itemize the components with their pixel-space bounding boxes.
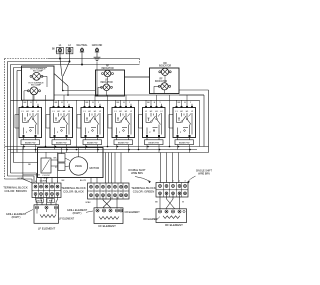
cabinet dashed boundary line <box>48 59 140 65</box>
svg-text:BK: BK <box>86 102 89 104</box>
wires from bus down to TB1 <box>41 153 58 184</box>
svg-text:BL/YR: BL/YR <box>80 180 87 182</box>
svg-text:RR ELEMENT: RR ELEMENT <box>143 218 159 221</box>
wire L1 drop <box>59 54 61 59</box>
annotation GRILL ELEMENT RIGHT left <box>6 210 33 220</box>
svg-text:BK: BK <box>24 102 27 104</box>
svg-text:H1: H1 <box>155 111 158 113</box>
node NEUTRAL supply terminal <box>76 44 88 54</box>
lamp B2 LF INDICATOR with label <box>98 77 113 96</box>
terminal block TB3 outline <box>156 181 188 197</box>
svg-text:Y: Y <box>67 102 69 104</box>
wires TB1 to element E1 <box>36 195 58 204</box>
ground symbol <box>94 54 101 95</box>
svg-text:R: R <box>56 51 58 53</box>
svg-text:CR ELEMENT: CR ELEMENT <box>125 211 141 214</box>
infinite switch S4 (CF) box <box>108 102 135 138</box>
wire L2 drop <box>69 54 71 62</box>
svg-text:L2: L2 <box>68 111 71 113</box>
annotation RR ELEMENT <box>143 217 160 221</box>
terminal block TB2 text COLOR BLACK <box>61 186 86 194</box>
relay small rect 1 <box>54 154 65 163</box>
svg-text:H2: H2 <box>119 111 122 113</box>
wires from S6 to bus <box>177 95 193 153</box>
wire TB2 feeds from control box <box>91 153 121 184</box>
svg-text:BK/BR P/W: BK/BR P/W <box>56 143 66 145</box>
svg-text:L2: L2 <box>37 111 40 113</box>
node GROUND supply terminal <box>92 44 103 54</box>
svg-text:GRILL ELEMENT: GRILL ELEMENT <box>6 212 27 216</box>
svg-text:GY/BK: GY/BK <box>17 178 24 180</box>
indicator lamp box A outline <box>22 66 55 100</box>
wire horizontal into TB1 zone <box>23 174 40 176</box>
wires from S4 to bus <box>116 95 132 153</box>
relay small rect 2 <box>55 163 65 171</box>
svg-text:BK/BR P/W: BK/BR P/W <box>118 143 128 145</box>
svg-text:BK: BK <box>28 164 31 166</box>
wire grill jumper from left nest to E1 <box>23 147 32 184</box>
svg-text:5: 5 <box>115 191 116 193</box>
svg-text:BK/BR P/W: BK/BR P/W <box>149 143 159 145</box>
wire horizontal bus y100 <box>11 99 200 101</box>
svg-text:INDICATOR: INDICATOR <box>155 80 168 83</box>
svg-text:L2: L2 <box>191 111 194 113</box>
svg-text:COLOR: BLACK: COLOR: BLACK <box>63 189 84 193</box>
svg-text:Y: Y <box>159 102 161 104</box>
svg-text:4: 4 <box>185 181 186 183</box>
svg-text:W/BK: W/BK <box>85 202 91 204</box>
svg-text:3: 3 <box>103 191 104 193</box>
svg-text:L1: L1 <box>83 111 86 113</box>
wire horizontal bus y95 <box>54 94 204 96</box>
svg-text:P: P <box>88 132 90 134</box>
infinite switch S5 (RR) box <box>139 102 166 138</box>
motor M1 circle <box>69 157 87 175</box>
svg-text:COLOR: BROWN: COLOR: BROWN <box>4 189 26 193</box>
wires inside control box <box>46 148 79 167</box>
label plate under switch S3 <box>83 140 102 145</box>
wires from lamp box C to right edge <box>179 90 209 153</box>
bus wire nest line 5 <box>17 71 22 153</box>
bus wire nest line 1 <box>5 59 49 180</box>
svg-text:H2: H2 <box>88 111 91 113</box>
svg-text:L2: L2 <box>99 111 102 113</box>
svg-text:4: 4 <box>179 181 180 183</box>
svg-text:CF ELEMENT: CF ELEMENT <box>98 224 116 228</box>
svg-text:R: R <box>30 102 32 104</box>
svg-text:R: R <box>154 102 156 104</box>
svg-text:6: 6 <box>121 191 122 193</box>
annotation GRILL ELEMENT RIGHT middle <box>67 208 93 215</box>
control assembly outer box <box>38 148 104 178</box>
svg-text:1: 1 <box>91 191 92 193</box>
svg-text:BK: BK <box>147 102 150 104</box>
svg-text:H1: H1 <box>63 111 66 113</box>
svg-text:BK/BR P/W: BK/BR P/W <box>25 143 35 145</box>
indicator lamp box B outline <box>96 70 125 96</box>
svg-text:3: 3 <box>41 181 42 183</box>
svg-text:IND LAMP: IND LAMP <box>31 84 42 87</box>
annotation SINGLE SHIFT WIRE BRN right <box>188 169 213 183</box>
label plate under switch S2 <box>52 140 71 145</box>
wire right edge loop bottom <box>204 146 209 148</box>
wires TB3 to element E3 with crossover <box>155 195 184 209</box>
wire diagonal from lamp box A <box>54 74 68 96</box>
infinite switch S3 (GRILL) box <box>77 102 104 138</box>
svg-text:R: R <box>55 167 57 169</box>
svg-text:BK/W: BK/W <box>37 201 42 203</box>
wire lower bus line 3 <box>11 152 209 154</box>
svg-text:R: R <box>123 102 125 104</box>
wires from S3 to bus <box>85 95 101 153</box>
svg-text:(RIGHT): (RIGHT) <box>12 217 21 219</box>
node L2 supply terminal <box>66 44 73 54</box>
svg-text:1: 1 <box>52 181 53 183</box>
svg-text:LF ELEMENT: LF ELEMENT <box>59 217 75 220</box>
svg-text:GROUND: GROUND <box>92 44 103 47</box>
wire group center-down to TB2 <box>106 153 112 184</box>
element E1 box (LF + grill) <box>34 205 59 224</box>
wire horizontal bus y91 <box>63 90 96 92</box>
node L1 supply terminal <box>57 44 64 54</box>
svg-text:L1: L1 <box>175 111 178 113</box>
wire lower bus line 2 <box>8 149 198 151</box>
svg-text:H1: H1 <box>186 111 189 113</box>
svg-text:BK: BK <box>52 49 56 51</box>
svg-text:ASM: ASM <box>44 176 49 179</box>
wire lower bus line 1 <box>5 146 205 148</box>
svg-text:L1: L1 <box>21 111 24 113</box>
wire NEUTRAL drop <box>81 54 83 65</box>
svg-text:L1: L1 <box>52 111 55 113</box>
lamp C1 RR INDICATOR with label <box>159 63 172 75</box>
svg-text:INDICATOR: INDICATOR <box>101 67 114 70</box>
svg-text:P: P <box>57 132 59 134</box>
svg-text:NEUTRAL: NEUTRAL <box>76 44 88 47</box>
svg-text:L1: L1 <box>145 111 148 113</box>
svg-text:BK: BK <box>62 180 65 182</box>
wire from lamp box B to box C <box>125 76 150 78</box>
svg-text:4: 4 <box>35 181 36 183</box>
svg-text:Y: Y <box>98 102 100 104</box>
terminal block TB2 outline <box>88 183 130 199</box>
svg-text:INDICATOR: INDICATOR <box>159 64 172 67</box>
bus junction dots <box>23 146 25 148</box>
clock timer square <box>41 158 51 179</box>
wire code labels under control box <box>40 180 87 183</box>
svg-text:GRILL ELEMENT: GRILL ELEMENT <box>67 208 88 212</box>
svg-text:2: 2 <box>97 191 98 193</box>
svg-text:BK: BK <box>54 158 57 160</box>
lamp A1 HOT SURFACE IND with label <box>30 67 46 80</box>
svg-text:BK: BK <box>55 102 58 104</box>
infinite switch S2 (LR) box <box>46 102 73 138</box>
svg-text:BK/BR P/W: BK/BR P/W <box>179 143 189 145</box>
svg-text:H2: H2 <box>26 111 29 113</box>
svg-text:H1: H1 <box>125 111 128 113</box>
svg-text:1500U: 1500U <box>75 165 83 168</box>
svg-text:H2: H2 <box>150 111 153 113</box>
wire Y-junction to main vertical <box>60 59 70 91</box>
indicator lamp box C outline <box>150 68 180 94</box>
svg-text:L2: L2 <box>130 111 133 113</box>
svg-text:Y: Y <box>190 102 192 104</box>
bus wire nest line 4 <box>14 68 48 163</box>
gutter vertical wires between switches <box>46 95 200 150</box>
svg-text:BK/BR P/W: BK/BR P/W <box>87 143 97 145</box>
svg-text:R: R <box>61 102 63 104</box>
bus wire nest line 2 <box>8 62 70 177</box>
label plate under switch S1 <box>21 140 40 145</box>
lamp A2 HOT SURFACE IND with label <box>24 76 47 106</box>
svg-text:R: R <box>92 102 94 104</box>
svg-text:H1: H1 <box>32 111 35 113</box>
svg-text:H2: H2 <box>57 111 60 113</box>
svg-text:H1: H1 <box>94 111 97 113</box>
svg-text:1: 1 <box>57 181 58 183</box>
svg-text:WIRE BRN: WIRE BRN <box>131 172 143 175</box>
svg-text:P: P <box>149 132 151 134</box>
svg-text:Y: Y <box>36 102 38 104</box>
lamp B1 RF INDICATOR with label <box>101 66 114 77</box>
svg-text:BK: BK <box>178 102 181 104</box>
element E3 box (RF + RR) <box>156 209 187 223</box>
terminal block TB3 text COLOR GREEN <box>131 186 156 194</box>
label plate under switch S6 <box>175 140 194 145</box>
wires from S2 to bus <box>54 95 70 153</box>
svg-text:W: W <box>182 202 184 204</box>
left bus lower turn wires <box>5 163 38 184</box>
wire group right-down to TB3 <box>161 153 179 183</box>
terminal block TB1 outline <box>32 181 61 197</box>
svg-text:IND LAMP: IND LAMP <box>33 70 44 73</box>
svg-text:WIRE BRN: WIRE BRN <box>198 172 210 175</box>
svg-text:BK: BK <box>155 202 158 204</box>
svg-text:4: 4 <box>109 191 110 193</box>
wires from S5 to bus <box>146 95 162 153</box>
svg-text:R/W: R/W <box>49 201 53 203</box>
svg-text:L1: L1 <box>59 44 62 47</box>
svg-text:3: 3 <box>173 181 174 183</box>
lamp C2 RF INDICATOR with label <box>154 75 171 93</box>
svg-text:BK: BK <box>117 102 120 104</box>
svg-text:Y: Y <box>129 102 131 104</box>
junction dots on bus <box>59 58 61 60</box>
svg-text:LF ELEMENT: LF ELEMENT <box>38 226 56 230</box>
svg-text:COLOR: GREEN: COLOR: GREEN <box>133 189 155 193</box>
svg-text:H2: H2 <box>180 111 183 113</box>
svg-text:RF ELEMENT: RF ELEMENT <box>165 223 183 227</box>
annotation CR ELEMENT <box>122 211 141 214</box>
wires from S1 to bus <box>23 95 39 153</box>
wires TB2 to element E2 with crossover <box>85 197 117 208</box>
svg-text:P: P <box>26 132 28 134</box>
svg-text:R: R <box>184 102 186 104</box>
svg-text:P: P <box>119 132 121 134</box>
label plate under switch S5 <box>145 140 164 145</box>
infinite switch S1 (LF) box <box>15 102 42 138</box>
element E2 box (CF + grill) <box>94 208 123 224</box>
wire label plates under TB1 <box>36 199 55 203</box>
svg-text:2: 2 <box>166 181 167 183</box>
infinite switch S6 (RF) box <box>169 102 196 138</box>
svg-text:7: 7 <box>126 191 127 193</box>
svg-text:P: P <box>180 132 182 134</box>
svg-text:MOTOR: MOTOR <box>90 166 100 170</box>
svg-text:1: 1 <box>160 181 161 183</box>
annotation DOUBLE SHIFT WIRE BRN left <box>128 169 150 183</box>
svg-text:L1: L1 <box>114 111 117 113</box>
svg-text:2: 2 <box>46 181 47 183</box>
svg-text:L2: L2 <box>160 111 163 113</box>
label plate under switch S4 <box>114 140 133 145</box>
bus wire nest line 3 <box>11 65 140 174</box>
svg-text:L2: L2 <box>68 44 71 47</box>
svg-text:INDICATOR: INDICATOR <box>100 81 113 84</box>
terminal block TB1 text COLOR BROWN <box>3 185 28 193</box>
svg-text:(RIGHT): (RIGHT) <box>73 213 82 215</box>
